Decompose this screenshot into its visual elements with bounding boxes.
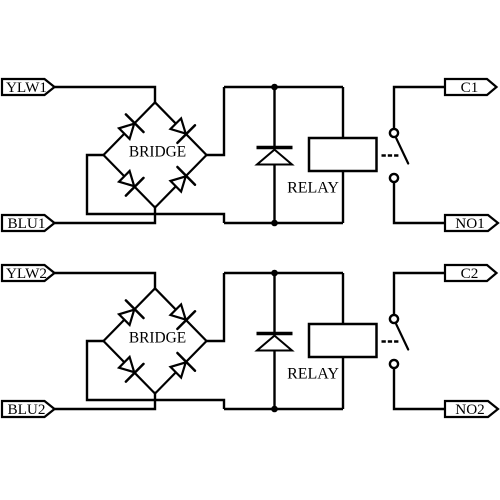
wire positive top rail (224, 86, 343, 88)
wire top rail to flyback diode cathode (273, 273, 275, 332)
relay K2 normally-open contact terminal (390, 360, 398, 368)
wire YLW2 to bridge top vertex (55, 273, 156, 290)
net label YLW2 (2, 265, 55, 282)
wire relay coil pin 2 to bottom rail (342, 357, 344, 409)
net label C2 (445, 265, 497, 282)
svg-text:NO1: NO1 (455, 215, 485, 232)
net label NO1 (445, 215, 498, 232)
net label C1 (445, 79, 497, 96)
wire flyback diode anode to bottom rail (273, 165, 275, 224)
flyback diode D2 across relay coil (cathode up) (257, 334, 293, 351)
wire relay coil pin 2 to bottom rail (342, 171, 344, 223)
svg-text:YLW2: YLW2 (6, 265, 47, 282)
wire common contact to C1 (394, 87, 446, 129)
svg-text:BRIDGE: BRIDGE (129, 330, 186, 347)
relay K2 common contact terminal (390, 315, 398, 323)
diode bridge BR1 diamond outline (104, 102, 207, 207)
wire top rail to relay coil pin 1 (342, 273, 344, 325)
bridge BR1 diode, top-to-right arm (171, 118, 196, 142)
bridge BR2 diode, left-to-top arm (119, 300, 144, 325)
flyback diode D1 across relay coil (cathode up) (257, 148, 293, 165)
bridge BR1 diode, bottom-to-right arm (171, 167, 196, 192)
bridge BR2 diode, top-to-right arm (171, 304, 196, 329)
switch blade (normally open) (396, 324, 408, 349)
wire NO contact to NO1 (394, 182, 445, 223)
wire bridge left vertex wrap-around to negative rail (jog at x=224) (87, 155, 224, 223)
svg-text:BLU1: BLU1 (8, 215, 46, 232)
svg-text:NO2: NO2 (455, 401, 485, 418)
wire positive top rail (224, 272, 343, 274)
value label BRIDGE (129, 330, 186, 347)
junction on top rail at flyback diode cathode (271, 84, 278, 91)
svg-text:BRIDGE: BRIDGE (129, 144, 186, 161)
wire bridge left vertex wrap-around to negative rail (jog at x=224) (87, 341, 224, 409)
junction on bottom rail at flyback diode anode (271, 220, 278, 227)
wire common contact to C2 (394, 273, 446, 315)
wire flyback diode anode to bottom rail (273, 351, 275, 410)
net label BLU1 (2, 215, 55, 232)
svg-text:C1: C1 (461, 79, 479, 96)
relay K1 actuator dotted linkage (382, 154, 400, 157)
wire bridge right vertex to positive top rail (207, 273, 225, 341)
junction on bottom rail at flyback diode anode (271, 406, 278, 413)
svg-text:BLU2: BLU2 (8, 401, 46, 418)
value label RELAY (287, 180, 339, 197)
value label RELAY (287, 366, 339, 383)
relay K1 normally-open contact terminal (390, 174, 398, 182)
switch blade (normally open) (396, 138, 408, 163)
bridge BR2 diode, left-to-bottom arm (119, 357, 144, 382)
net label BLU2 (2, 401, 55, 418)
wire top rail to flyback diode cathode (273, 87, 275, 146)
wire NO contact to NO2 (394, 368, 445, 409)
net label NO2 (445, 401, 498, 418)
junction on top rail at flyback diode cathode (271, 270, 278, 277)
relay K1 common contact terminal (390, 129, 398, 137)
net label YLW1 (2, 79, 55, 96)
wire top rail to relay coil pin 1 (342, 87, 344, 139)
svg-text:YLW1: YLW1 (6, 79, 47, 96)
bridge BR1 diode, left-to-bottom arm (119, 171, 144, 196)
wire BLU2 to bridge bottom vertex (55, 392, 156, 409)
diode bridge BR2 diamond outline (104, 288, 207, 393)
svg-text:RELAY: RELAY (287, 180, 339, 197)
wire YLW1 to bridge top vertex (55, 87, 156, 104)
bridge BR1 diode, left-to-top arm (119, 114, 144, 138)
svg-text:C2: C2 (461, 265, 479, 282)
wire bridge right vertex to positive top rail (207, 87, 225, 155)
value label BRIDGE (129, 144, 186, 161)
relay K2 actuator dotted linkage (382, 340, 400, 343)
svg-text:RELAY: RELAY (287, 366, 339, 383)
wire negative bottom rail (224, 408, 343, 410)
relay K1 coil box (309, 138, 377, 171)
relay K2 coil box (309, 324, 377, 357)
bridge BR2 diode, bottom-to-right arm (171, 353, 196, 378)
wire BLU1 to bridge bottom vertex (55, 206, 156, 223)
wire negative bottom rail (224, 222, 343, 224)
